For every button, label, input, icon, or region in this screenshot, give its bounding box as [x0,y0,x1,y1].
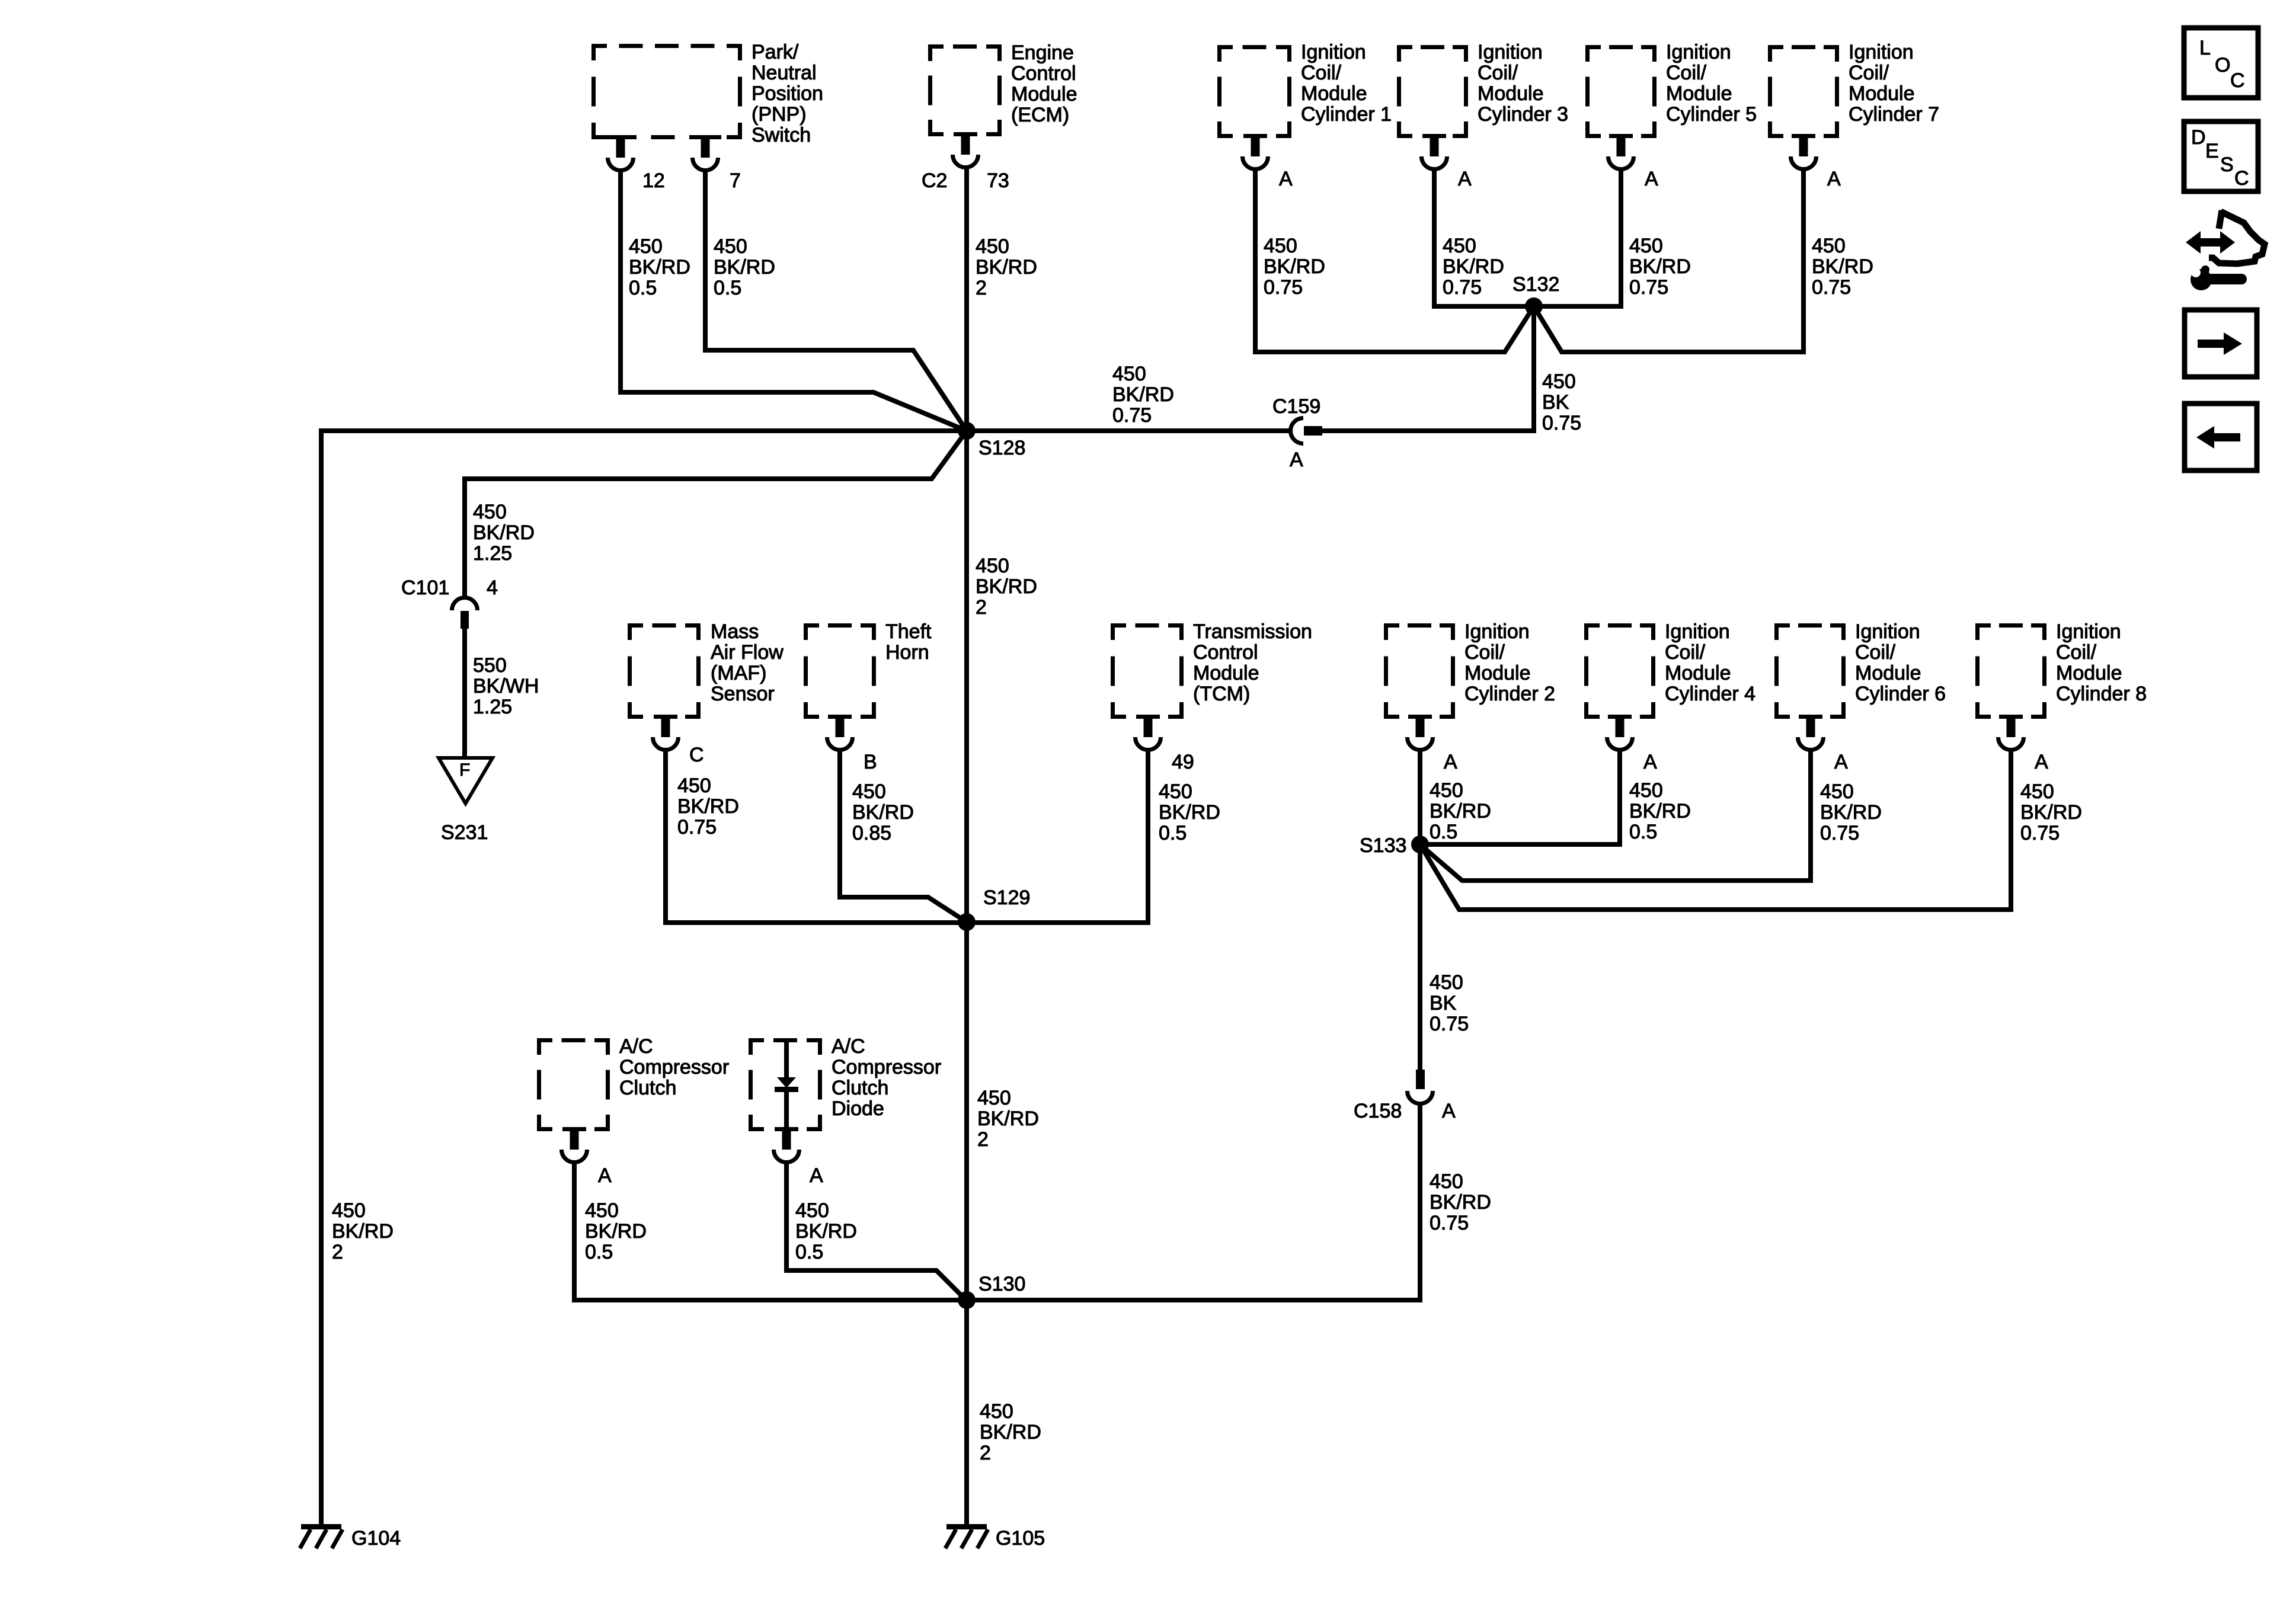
svg-text:S130: S130 [978,1273,1025,1295]
component box: Ignition Coil/Module Cylinder 7 (dashed) [1768,45,1839,138]
wire label 450 BK/RD 0.5 (coil 2) [1430,779,1491,843]
connector pin A of diode [774,1131,800,1163]
wire: ECM trunk S129 to S130 (450 BK/RD 2) [964,922,969,1300]
label: Ignition Coil/Module Cylinder 5 [1666,41,1757,126]
svg-text:A: A [1827,168,1841,190]
svg-text:A: A [1834,751,1848,773]
connector pin 73 of ECM (C2) [953,136,978,168]
svg-text:B: B [864,751,877,773]
svg-text:A: A [1290,449,1303,471]
svg-text:A: A [1645,168,1658,190]
label: Ignition Coil/Module Cylinder 4 [1665,620,1755,705]
connector pin A of coil 7 [1791,138,1817,169]
wire label 450 BK/RD 0.75 (C158 leg) [1430,1170,1491,1234]
wire label 450 BK/RD 2 (S129-S130) [977,1087,1039,1151]
wire: PNP pin 7 to S128 (450 BK/RD 0.5) [705,171,967,431]
wire label 450 BK/RD 0.5 (pin 7) [714,235,775,299]
wire: PNP pin 12 to S128 (450 BK/RD 0.5) [621,171,967,431]
svg-text:A: A [1643,751,1657,773]
ground label G105 [996,1527,1045,1550]
label: A/C Compressor Clutch Diode name [832,1035,941,1120]
svg-text:S128: S128 [978,437,1025,459]
connector label C159 [1272,395,1320,418]
svg-text:E: E [2205,140,2219,162]
svg-text:73: 73 [987,169,1009,192]
svg-text:S133: S133 [1360,834,1406,857]
wire label 450 BK/RD 0.5 (TCM) [1159,780,1220,844]
pin label A (clutch) [598,1164,612,1187]
component box: Ignition Coil/Module Cylinder 1 (dashed) [1217,45,1291,138]
svg-text:4: 4 [487,577,498,599]
svg-text:A: A [1458,168,1472,190]
junction S132 (splice dot) [1525,297,1543,315]
wire label 450 BK/RD 2 (left trunk) [332,1199,394,1263]
component box: A/C Compressor Clutch (dashed) [537,1038,610,1131]
svg-text:12: 12 [642,169,665,192]
wire: C101 to S231 fuse triangle (550 BK/WH 1.25) [462,629,467,758]
wire: MAF pin C to S129 (450 BK/RD 0.75) [666,748,967,923]
connector pin 7 of PNP switch [693,139,718,171]
label: Theft Horn name [885,620,932,664]
wire: coil 7 to S132 (450 BK/RD 0.75) [1534,171,1803,352]
svg-text:TheftHorn: TheftHorn [885,620,932,664]
icon: LOC locator box [2184,28,2258,98]
pin label A (diode) [810,1164,823,1187]
label: Ignition Coil/Module Cylinder 7 [1849,41,1939,126]
pin label A (coil 1) [1279,168,1293,190]
connector pin 49 of TCM [1136,719,1161,750]
svg-text:S132: S132 [1512,273,1559,296]
connector pin A of coil 2 [1408,719,1433,750]
wire label 450 BK 0.75 (S132 leg) [1542,370,1581,434]
junction label S130 [978,1273,1025,1295]
wire label 450 BK/RD 0.75 (MAF) [677,774,739,838]
connector pin A of coil 1 [1243,138,1268,169]
wire: S133 down to C158 (450 BK 0.75) [1418,844,1422,1070]
junction S128 (splice dot) [958,422,976,440]
component box: Theft Horn (dashed) [804,623,876,719]
wire: TCM pin 49 to S129 (450 BK/RD 0.5) [967,748,1148,923]
wire label 450 BK/RD 0.75 (coil 3) [1443,235,1504,299]
connector label C101 [401,577,449,599]
pin label 12 [642,169,665,192]
connector pin A of coil 4 [1607,719,1633,750]
svg-text:C159: C159 [1272,395,1320,418]
component box: A/C Compressor Clutch Diode (dashed) [749,1038,822,1131]
wire: coil 8 down to S133 (450 BK/RD 0.75) [1420,748,2011,910]
pin label A (C158) [1442,1100,1456,1122]
wire label 450 BK 0.75 (S133 leg) [1430,971,1469,1035]
pin label C2 [922,169,947,192]
label: A/C Compressor Clutch name [619,1035,729,1099]
svg-text:S231: S231 [441,821,488,844]
svg-text:O: O [2215,54,2230,76]
connector pin 12 of PNP switch [608,139,634,171]
connector pin A of coil 6 [1798,719,1824,750]
diode D1 inside box (cathode down) [775,1042,798,1131]
wire label 450 BK/RD 2 (G105 leg) [980,1400,1041,1464]
component box: Ignition Coil/Module Cylinder 8 (dashed) [1975,623,2046,719]
wire label 450 BK/RD 0.5 (coil 4) [1629,779,1691,843]
wire label 450 BK/RD 0.5 (clutch) [585,1199,647,1263]
svg-text:D: D [2191,126,2206,149]
svg-text:A: A [1442,1100,1456,1122]
wire label 450 BK/RD 0.75 (coil 1) [1264,235,1325,299]
wire label 450 BK/RD 2 (S128-S129) [976,555,1037,619]
svg-text:C101: C101 [401,577,449,599]
wire label 450 BK/RD 2 (ECM) [976,235,1037,299]
wire label 450 BK/RD 0.75 (coil 6) [1820,780,1882,844]
pin label A (coil 6) [1834,751,1848,773]
ground symbol G105 [945,1524,988,1548]
svg-text:A: A [2035,751,2048,773]
wire label 450 BK/RD 0.75 (coil 5) [1629,235,1691,299]
pin label A (coil 2) [1444,751,1457,773]
label: Ignition Coil/Module Cylinder 1 [1301,41,1392,126]
svg-text:7: 7 [730,169,741,192]
svg-text:A: A [1444,751,1457,773]
wire: coil 5 down to S132 junction [1534,171,1621,306]
label: Ignition Coil/Module Cylinder 2 [1464,620,1555,705]
component box: Ignition Coil/Module Cylinder 3 (dashed) [1397,45,1468,138]
svg-text:F: F [459,760,470,780]
wire label 450 BK/RD 0.75 (coil 7) [1812,235,1873,299]
svg-text:A: A [598,1164,612,1187]
pin label 4 (C101) [487,577,498,599]
junction label S231 [441,821,488,844]
junction label S128 [978,437,1025,459]
inline connector C159 (half circle facing right with pin) [1291,418,1323,444]
component box: Ignition Coil/Module Cylinder 2 (dashed) [1384,623,1455,719]
label: PNP Switch name [752,41,823,146]
wire: S130 down to ground G105 (450 BK/RD 2) [964,1300,969,1524]
junction S133 (splice dot) [1411,836,1429,853]
wire: S128 right to C159 (450 BK/RD 0.75) [967,428,1291,433]
label: MAF sensor name [711,620,784,705]
svg-text:C: C [689,744,704,766]
wire: coil 3 down to S132 junction [1434,171,1534,306]
wire: coil 1 to S132 (450 BK/RD 0.75) [1255,171,1534,352]
wire: C158 down to S130 horizontal (450 BK/RD 0.75) [967,1102,1420,1300]
svg-text:G104: G104 [351,1527,401,1550]
pin label A (coil 5) [1645,168,1658,190]
svg-text:S: S [2220,153,2234,176]
icon: DESC description box [2184,121,2258,191]
connector pin C of MAF sensor [653,719,679,750]
svg-text:C2: C2 [922,169,947,192]
component box: Engine Control Module ECM (dashed) [928,44,1002,136]
icon: part locator (car silhouette with double arrow and wrench) [2186,210,2265,290]
label: TCM name [1193,620,1312,705]
label: Ignition Coil/Module Cylinder 6 [1855,620,1946,705]
svg-text:A: A [810,1164,823,1187]
wire: diode pin A to S130 (450 BK/RD 0.5) [786,1161,966,1300]
icon: forward arrow box [2185,310,2257,377]
ground symbol G104 [300,1524,343,1548]
svg-text:A: A [1279,168,1293,190]
pin label C (MAF) [689,744,704,766]
pin label A (C159) [1290,449,1303,471]
wire: ECM trunk S128 to S129 (450 BK/RD 2) [964,431,969,922]
connector pin A of coil 8 [1998,719,2024,750]
wire: theft horn pin B to S129 (450 BK/RD 0.85) [840,748,967,922]
component box: Mass Air Flow (MAF) Sensor (dashed) [628,623,701,719]
connector pin A of coil 5 [1609,138,1634,169]
inline connector C158 (pin into half circle cup) [1408,1070,1433,1104]
fusible link F triangle at S231 [439,758,493,804]
icon: back arrow box [2185,404,2257,470]
wire: S128 left to G104 trunk (450 BK/RD 2) [321,431,967,1524]
wire: A/C clutch pin A to S130 (450 BK/RD 0.5) [574,1161,967,1300]
wire: S132 down and left to C159 (450 BK 0.75) [1322,306,1534,431]
junction label S133 [1360,834,1406,857]
connector pin B of theft horn [827,719,853,750]
connector pin A of coil 3 [1422,138,1447,169]
svg-text:C: C [2234,167,2249,190]
wire label 550 BK/WH 1.25 [473,654,539,718]
wire label 450 BK/RD 0.5 (pin 12) [629,235,690,299]
junction label S132 [1512,273,1559,296]
junction label S129 [983,886,1030,909]
pin label 7 [730,169,741,192]
wire label 450 BK/RD 0.75 (S128 to C159) [1112,363,1174,427]
ground label G104 [351,1527,401,1550]
label: ECM name [1011,41,1077,126]
pin label 73 [987,169,1009,192]
label: Ignition Coil/Module Cylinder 3 [1478,41,1568,126]
component box: Ignition Coil/Module Cylinder 4 (dashed) [1584,623,1655,719]
pin label A (coil 8) [2035,751,2048,773]
wire label 450 BK/RD 0.85 (theft horn) [852,780,914,844]
wire: S128 branch to C101 (450 BK/RD 1.25) [465,431,967,596]
pin label A (coil 4) [1643,751,1657,773]
inline connector C101 (half circle facing down with pin) [452,597,478,629]
svg-text:C158: C158 [1354,1100,1402,1122]
svg-text:49: 49 [1172,751,1194,773]
wire label 450 BK/RD 0.5 (diode) [795,1199,857,1263]
pin label 49 (TCM) [1172,751,1194,773]
label: Ignition Coil/Module Cylinder 8 [2056,620,2147,705]
pin label A (coil 7) [1827,168,1841,190]
pin label A (coil 3) [1458,168,1472,190]
wire: coil 6 down to S133 (450 BK/RD 0.75) [1420,748,1811,881]
junction S129 (splice dot) [958,913,976,931]
component box: Ignition Coil/Module Cylinder 6 (dashed) [1774,623,1846,719]
svg-text:C: C [2230,69,2245,92]
pin label B (theft horn) [864,751,877,773]
wire: ECM pin 73 down to S128 (450 BK/RD 2) [964,167,969,431]
component box: Ignition Coil/Module Cylinder 5 (dashed) [1585,45,1657,138]
svg-text:G105: G105 [996,1527,1045,1550]
connector pin A of A/C compressor clutch [562,1131,587,1163]
connector label C158 [1354,1100,1402,1122]
wire: coil 4 down to S133 (450 BK/RD 0.5) [1420,748,1620,844]
component box: Park/Neutral Position (PNP) Switch (dashed) [591,44,742,139]
wire label 450 BK/RD 0.75 (coil 8) [2020,780,2082,844]
wire: coil 2 down to S133 (450 BK/RD 0.5) [1418,748,1422,844]
svg-text:S129: S129 [983,886,1030,909]
svg-text:EngineControlModule(ECM): EngineControlModule(ECM) [1011,41,1077,126]
svg-text:L: L [2199,37,2211,59]
wire label 450 BK/RD 1.25 (C101 branch) [473,501,535,565]
junction S130 (splice dot) [958,1291,976,1309]
component box: Transmission Control Module TCM (dashed) [1111,623,1184,719]
